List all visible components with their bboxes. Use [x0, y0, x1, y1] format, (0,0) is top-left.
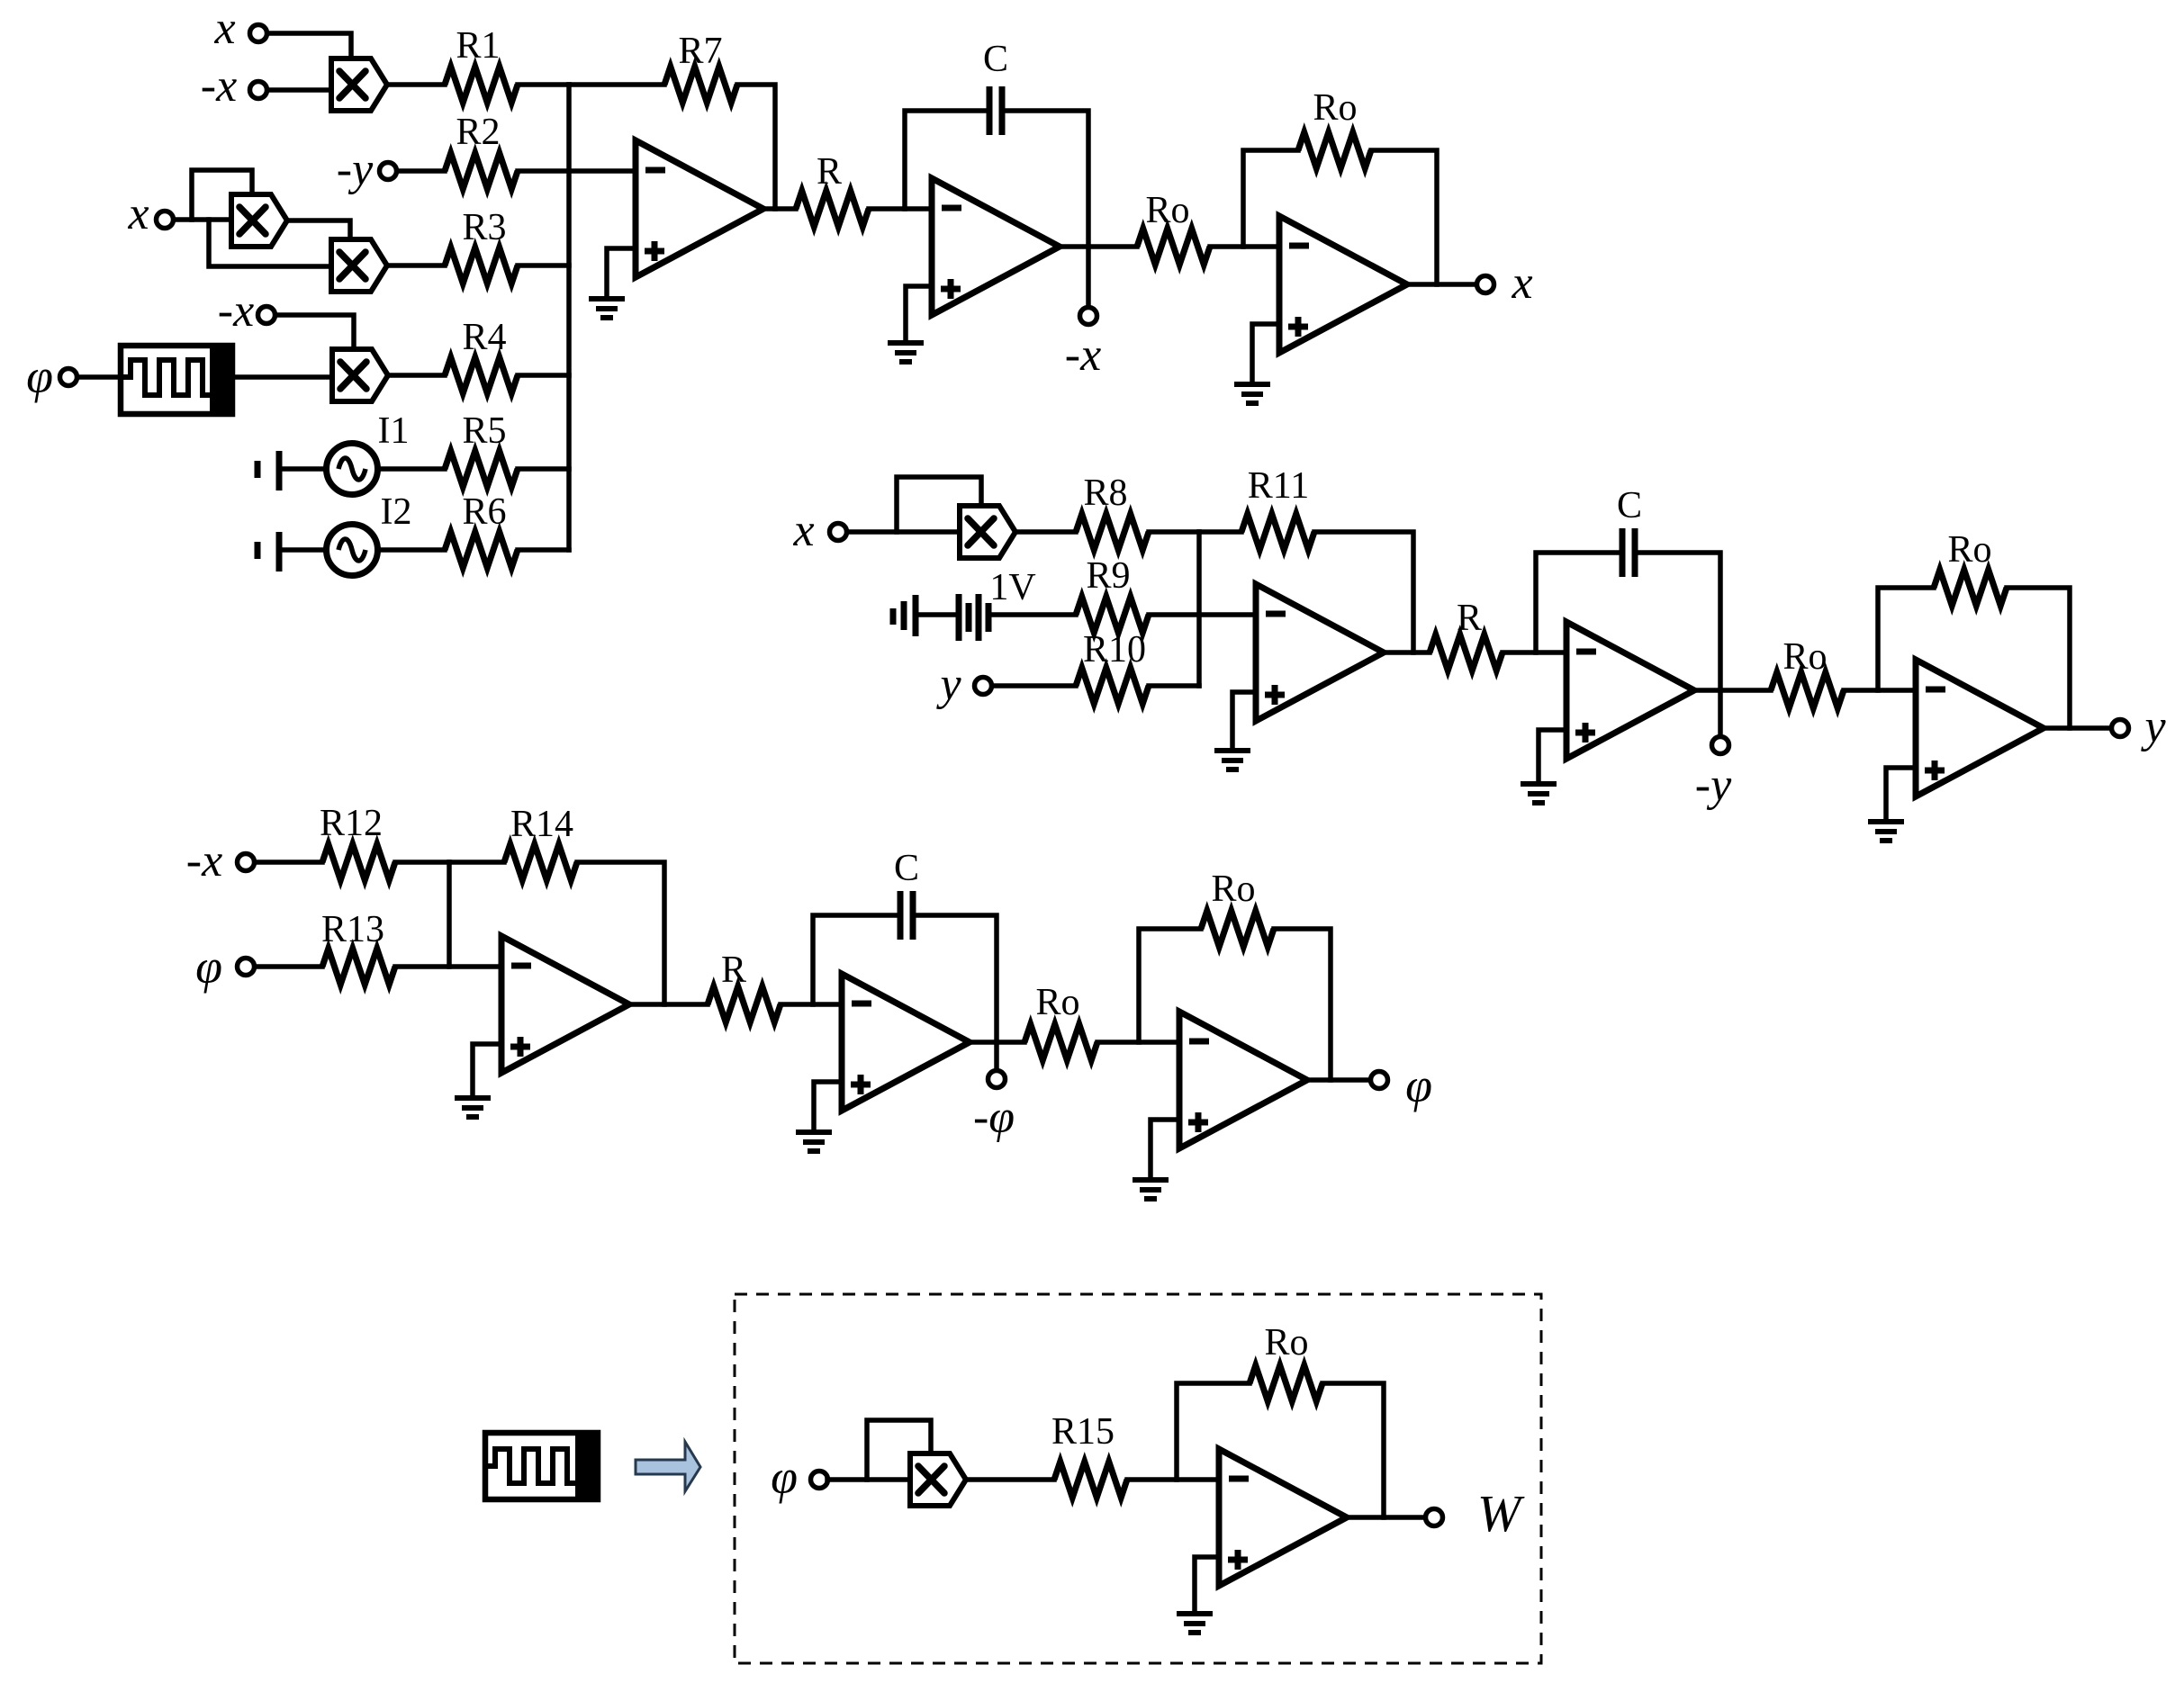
node phi terminal (row1) — [60, 369, 77, 386]
resistor R (row1 series) — [796, 191, 869, 227]
node W output terminal — [1426, 1509, 1443, 1526]
resistor Ro (row3 feedback) — [1201, 911, 1274, 947]
resistor R (row2 series) — [1430, 634, 1503, 670]
battery cell symbol (I2 return) — [257, 532, 279, 571]
op-amp U6 (inverter row2) — [1916, 660, 2044, 796]
svg-text:-y: -y — [1695, 760, 1732, 811]
ground (U8 +) — [796, 1132, 832, 1151]
wire R9 to bus2 and U4 inverting input — [1149, 612, 1256, 617]
stub to -phi output terminal — [994, 1042, 999, 1070]
wire R12 to bus3 — [395, 859, 449, 865]
multiplier M1 (x * -x) — [331, 58, 387, 111]
wire Ro feedback to U6 output — [2007, 588, 2070, 728]
svg-text:y: y — [935, 659, 961, 710]
svg-text:-y: -y — [337, 144, 374, 195]
op-amp U5 (integrator row2) — [1566, 622, 1694, 759]
svg-text:R9: R9 — [1086, 555, 1130, 597]
svg-text:Ro: Ro — [1211, 868, 1255, 910]
wire M1 out to R1 — [387, 82, 445, 87]
svg-text:Ro: Ro — [1313, 87, 1357, 129]
wire R15 to U10 inverting input — [1127, 1477, 1219, 1482]
wire U4 out to R — [1384, 650, 1430, 655]
svg-text:-φ: -φ — [973, 1092, 1015, 1143]
wire phi loop to M6 top input — [867, 1420, 931, 1480]
wire cell to source I2 — [282, 547, 327, 553]
ground (U1 +) — [589, 299, 625, 318]
svg-text:R15: R15 — [1051, 1411, 1115, 1453]
wire U9 out to phi terminal — [1307, 1077, 1370, 1083]
op-amp U7 (summing amplifier row3) — [501, 936, 629, 1073]
stub to -x output terminal — [1086, 247, 1091, 306]
multiplier M2 (x squared) — [231, 194, 287, 247]
resistor R9 — [1076, 597, 1149, 633]
svg-text:I2: I2 — [381, 491, 412, 533]
wire U5 + input to ground — [1539, 730, 1566, 782]
wire R6 to bus — [518, 547, 569, 553]
wire -x to multiplier M4 top — [275, 315, 354, 350]
resistor R13 — [322, 949, 395, 985]
ground (U6 +) — [1868, 822, 1904, 841]
wire R4 to bus — [518, 373, 569, 378]
wire U7 + input to ground — [473, 1044, 501, 1096]
resistor R10 — [1076, 668, 1149, 704]
svg-text:C: C — [894, 848, 919, 889]
wire R14 to U7 output — [577, 862, 664, 1004]
svg-text:R4: R4 — [462, 317, 506, 358]
resistor Ro (row1 feedback) — [1298, 132, 1371, 168]
wire U5 out to Ro — [1694, 688, 1771, 693]
svg-text:I1: I1 — [378, 410, 410, 452]
svg-text:-x: -x — [201, 60, 237, 112]
svg-text:R14: R14 — [510, 804, 573, 845]
wire x loop to M2 top input — [192, 170, 252, 220]
resistor R14 (feedback) — [504, 844, 577, 880]
wire battery to R9 — [991, 612, 1076, 617]
battery 1V symbol — [893, 594, 988, 641]
svg-text:R7: R7 — [678, 31, 722, 72]
resistor R6 — [445, 532, 518, 568]
svg-text:C: C — [983, 39, 1008, 80]
wire R to U8 inverting input — [781, 1002, 842, 1007]
node -x terminal (row1) — [250, 82, 267, 99]
dashed box (memristor equivalent circuit) — [735, 1294, 1541, 1663]
svg-text:φ: φ — [1405, 1058, 1432, 1112]
op-amp U9 (inverter row3) — [1179, 1012, 1307, 1148]
svg-text:x: x — [127, 188, 149, 239]
wire Ro feedback to U10 output — [1322, 1383, 1384, 1517]
ac source I2 — [327, 525, 378, 576]
wire phi to memristor — [78, 374, 121, 380]
node phi terminal (row3) — [238, 958, 255, 976]
resistor R15 — [1054, 1462, 1127, 1498]
wire y to R10 — [992, 683, 1076, 688]
svg-text:R13: R13 — [321, 909, 384, 950]
wire Ro to U3 inverting input — [1210, 244, 1279, 249]
svg-text:-x: -x — [1065, 329, 1101, 381]
svg-text:W: W — [1477, 1484, 1525, 1543]
wire -x to R12 — [255, 859, 322, 865]
battery cell symbol (I1 return) — [257, 451, 279, 490]
wire U6 out to y terminal — [2044, 725, 2111, 731]
wire R11 to U4 output — [1314, 532, 1413, 652]
wire R3 to bus — [518, 263, 569, 268]
svg-text:Ro: Ro — [1782, 636, 1827, 678]
ground (U10 +) — [1177, 1614, 1213, 1633]
node phi terminal (equivalent circuit) — [811, 1471, 828, 1489]
wire R to U2 inverting input — [869, 206, 932, 211]
svg-text:φ: φ — [195, 940, 222, 994]
op-amp U8 (integrator row3) — [842, 974, 970, 1111]
resistor R12 — [322, 844, 395, 880]
wire Ro to U9 inverting input — [1097, 1039, 1179, 1045]
svg-text:R6: R6 — [462, 491, 506, 533]
wire U4 + input to ground — [1232, 692, 1256, 749]
wire U2 + input to ground — [906, 286, 932, 341]
wire U7 out to R — [629, 1002, 708, 1007]
wire phi to multiplier M6 left — [827, 1477, 910, 1482]
ground (U5 +) — [1521, 784, 1557, 803]
resistor R (row3 series) — [708, 986, 781, 1022]
wire -y to R2 — [397, 168, 445, 174]
wire U10 out to W terminal — [1347, 1515, 1425, 1520]
wire R to U5 inverting input — [1503, 650, 1566, 655]
wire U2 out to Ro — [1060, 244, 1137, 249]
wire Ro feedback to U3 output — [1371, 150, 1437, 284]
node x terminal (x-cube chain) — [157, 211, 174, 229]
wire C to U2 output — [1002, 111, 1088, 247]
op-amp U4 (summing amplifier row2) — [1256, 584, 1384, 721]
resistor R11 (feedback) — [1241, 514, 1314, 550]
wire Ro to U6 inverting input — [1844, 688, 1916, 693]
wire C feedback left leg (row1) — [905, 111, 989, 209]
resistor R4 — [445, 357, 518, 393]
wire R5 to bus — [518, 466, 569, 472]
capacitor C (row2 integrator) — [1622, 528, 1635, 577]
svg-text:R12: R12 — [320, 803, 383, 844]
svg-text:R5: R5 — [462, 410, 506, 452]
wire U3 + input to ground — [1252, 324, 1279, 382]
node -y terminal — [380, 163, 397, 180]
svg-text:R: R — [817, 151, 842, 193]
wire M2 out to M3 top — [287, 220, 350, 240]
wire M4 out to R4 — [388, 373, 445, 378]
svg-text:-x: -x — [218, 285, 254, 337]
svg-text:R2: R2 — [456, 112, 500, 153]
wire phi to R13 — [255, 964, 322, 969]
multiplier M6 (phi squared) — [910, 1453, 966, 1506]
svg-text:1V: 1V — [989, 567, 1035, 608]
ground (U4 +) — [1214, 751, 1250, 769]
wire Ro feedback left leg (U10) — [1177, 1383, 1250, 1480]
multiplier M3 (x cubed) — [331, 239, 387, 292]
svg-text:R1: R1 — [456, 25, 500, 67]
svg-text:x: x — [1511, 257, 1532, 309]
ground (U2 +) — [888, 343, 924, 362]
wire C feedback left leg (row3) — [813, 915, 900, 1004]
wire U9 + input to ground — [1151, 1120, 1179, 1178]
svg-text:Ro: Ro — [1035, 982, 1079, 1023]
resistor Ro (row3 series) — [1024, 1024, 1097, 1060]
resistor Ro (U10 feedback) — [1250, 1365, 1322, 1401]
wire C feedback left leg (row2) — [1536, 553, 1622, 652]
svg-text:Ro: Ro — [1947, 529, 1991, 571]
node -x terminal (row3) — [238, 854, 255, 871]
wire -x to multiplier M1 left — [267, 87, 331, 93]
wire R2 to bus and U1 inverting input — [518, 168, 636, 174]
svg-text:Ro: Ro — [1264, 1322, 1308, 1363]
wire x to multiplier M1 top — [267, 33, 351, 59]
arrow (equivalence) — [636, 1442, 700, 1491]
wire Ro feedback left leg (row1) — [1243, 150, 1298, 247]
ground (U9 +) — [1133, 1180, 1169, 1199]
wire U6 + input to ground — [1886, 768, 1916, 820]
summing bus (row1 node) — [566, 85, 572, 550]
ac source I1 — [327, 444, 378, 495]
multiplier M4 (W(phi) * -x) — [332, 349, 388, 401]
resistor Ro (row2 feedback) — [1934, 570, 2007, 606]
resistor R8 — [1076, 514, 1149, 550]
wire R8 to bus2 — [1149, 529, 1199, 535]
node -phi output terminal — [988, 1071, 1006, 1088]
memristor M (flux-controlled) — [121, 343, 232, 417]
wire U8 + input to ground — [814, 1082, 842, 1130]
wire Ro feedback to U9 output — [1274, 929, 1331, 1080]
wire I2 to R6 — [377, 547, 445, 553]
node y terminal (row2 input) — [975, 678, 992, 695]
op-amp U10 (W output amplifier) — [1219, 1449, 1347, 1586]
svg-text:φ: φ — [771, 1450, 798, 1504]
wire U10 + input to ground — [1195, 1557, 1219, 1612]
op-amp U1 (summing amplifier row1) — [636, 140, 763, 277]
resistor Ro (row2 series) — [1771, 672, 1844, 708]
wire bus2 to R11 — [1199, 529, 1241, 535]
svg-text:R3: R3 — [462, 207, 506, 248]
svg-text:Ro: Ro — [1145, 190, 1189, 231]
wire bus3 to R14 — [449, 859, 504, 865]
summing bus row3 — [447, 862, 452, 967]
wire R13 to bus3 and U7 inverting input — [395, 964, 501, 969]
node phi output terminal — [1371, 1072, 1388, 1089]
wire R7 to op-amp U1 output — [737, 85, 775, 209]
node -x terminal (memristor row) — [258, 307, 275, 324]
node -x output terminal (row1) — [1080, 308, 1097, 325]
node x output terminal (row1) — [1477, 276, 1494, 293]
wire Ro feedback left leg (row2) — [1878, 588, 1934, 690]
resistor R2 — [445, 153, 518, 189]
op-amp U3 (inverter row1) — [1279, 216, 1407, 353]
capacitor C (row3 integrator) — [900, 891, 913, 940]
summing bus row2 — [1196, 532, 1202, 686]
svg-text:y: y — [2140, 701, 2166, 752]
multiplier M5 (x squared row2) — [960, 506, 1015, 558]
wire cell to source I1 — [282, 466, 327, 472]
wire R10 to bus2 — [1149, 683, 1199, 688]
wire C to U5 output — [1635, 553, 1720, 690]
resistor R1 — [445, 67, 518, 103]
wire U1 + input to ground — [607, 248, 636, 297]
svg-text:R: R — [721, 949, 746, 991]
resistor Ro (row1 series) — [1137, 229, 1210, 265]
svg-text:x: x — [213, 3, 235, 54]
svg-text:C: C — [1617, 485, 1642, 526]
memristor symbol (legend) — [485, 1430, 598, 1502]
node -y output terminal — [1712, 737, 1729, 754]
wire x to multiplier M5 left — [847, 529, 960, 535]
resistor R5 — [445, 451, 518, 487]
svg-text:R8: R8 — [1083, 472, 1127, 514]
wire bus to R7 — [569, 82, 664, 87]
capacitor C (row1 integrator) — [989, 86, 1002, 135]
wire U3 out to x terminal — [1407, 282, 1476, 287]
op-amp U2 (integrator row1) — [932, 178, 1060, 315]
wire x to multiplier M2 left — [174, 217, 231, 222]
node x terminal (row1) — [250, 25, 267, 42]
wire M5 out to R8 — [1015, 529, 1076, 535]
wire U8 out to Ro — [970, 1039, 1024, 1045]
wire x down to multiplier M3 left — [209, 220, 331, 266]
svg-text:x: x — [792, 505, 814, 556]
wire M6 out to R15 — [966, 1477, 1054, 1482]
wire x loop to M5 top input — [897, 477, 981, 532]
wire R1 to summing bus — [518, 82, 569, 87]
node x terminal (row2) — [830, 524, 847, 541]
wire I1 to R5 — [377, 466, 445, 472]
svg-text:φ: φ — [26, 349, 53, 403]
resistor R7 (feedback) — [664, 67, 737, 103]
stub to -y output terminal — [1718, 690, 1723, 735]
node y output terminal — [2112, 720, 2129, 737]
svg-text:R11: R11 — [1248, 465, 1309, 507]
svg-text:R10: R10 — [1083, 629, 1146, 670]
wire U1 out to R — [763, 206, 796, 211]
wire M3 out to R3 — [387, 263, 445, 268]
resistor R3 — [445, 247, 518, 283]
ground (U7 +) — [455, 1098, 491, 1117]
wire C to U8 output — [913, 915, 997, 1042]
wire Ro feedback left leg (row3) — [1139, 929, 1201, 1042]
svg-text:R: R — [1457, 598, 1482, 639]
wire memristor to multiplier M4 left — [232, 374, 332, 380]
svg-text:-x: -x — [186, 835, 222, 886]
ground (U3 +) — [1234, 384, 1270, 403]
